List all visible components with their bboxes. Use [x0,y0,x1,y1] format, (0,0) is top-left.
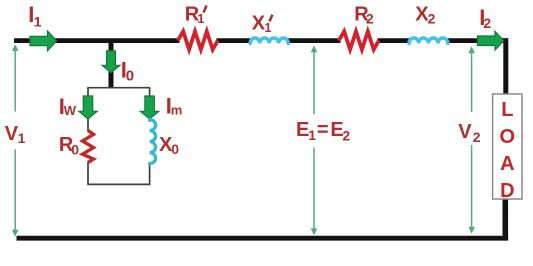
wire center tap [109,40,114,89]
label Iw [59,94,77,119]
svg-text:1: 1 [308,127,316,143]
voltage line V2 bottom arrowhead [468,227,475,234]
label X2 [415,3,435,26]
label R0 [59,134,79,158]
svg-text:V: V [458,121,472,143]
wire shunt right branch lower [149,164,151,185]
svg-text:2: 2 [473,129,481,145]
wire shunt right branch upper [149,88,151,122]
emf line E upper [313,51,315,114]
svg-text:L: L [501,99,513,121]
wire shunt left branch upper [87,88,89,132]
wire right vertical upper [503,38,508,95]
resistor R2 [339,31,379,49]
inductor X2 [409,38,448,43]
current arrow I1 [30,31,57,51]
svg-text:0: 0 [171,141,179,157]
label V2 [458,121,481,145]
emf line E bottom arrowhead [311,228,318,235]
wire shunt left branch lower [87,162,89,184]
voltage line V1 upper [14,50,16,112]
current arrow I2 [478,31,504,50]
emf line E lower [313,148,315,230]
label Im [166,93,183,118]
voltage line V2 top arrowhead [468,46,475,53]
svg-text:1: 1 [265,21,272,35]
label X1' prime [270,15,273,22]
svg-text:2: 2 [342,128,350,144]
load box [493,94,522,199]
label X1' [252,12,272,35]
label R2 [354,3,374,26]
svg-text:W: W [64,103,77,118]
wire top rail segment 5 [448,38,508,43]
svg-text:1: 1 [18,130,26,146]
wire shunt bottom bar [87,183,150,185]
svg-text:=: = [317,119,329,141]
emf line E top arrowhead [311,45,318,52]
label I2 [479,5,491,31]
label X0 [159,134,179,157]
svg-text:O: O [500,126,516,148]
current arrow Im [140,96,158,119]
wire top rail segment 2 [217,38,252,43]
label I0 [121,57,134,84]
svg-text:1: 1 [34,13,42,29]
label I1 [28,2,42,30]
resistor R1' [178,31,218,49]
svg-text:0: 0 [71,142,79,158]
wire top rail segment 3 [287,38,341,43]
current arrow Iw [79,96,97,119]
svg-text:A: A [500,153,514,175]
label E1 = E2 [296,119,350,143]
label R1' [185,3,205,25]
svg-text:m: m [171,103,183,118]
wire bottom rail [17,236,509,241]
voltage line V1 bottom arrowhead [12,230,19,237]
inductor X1' [250,38,288,43]
svg-text:2: 2 [366,10,374,26]
svg-text:0: 0 [126,68,134,85]
resistor R0 [83,130,94,162]
svg-text:D: D [500,180,514,202]
voltage line V1 lower [14,150,16,232]
wire top rail segment 1 [14,38,180,43]
current arrow I0 [102,51,120,73]
label V1 [5,123,26,146]
wire shunt top bar [87,87,150,89]
voltage line V1 top arrowhead [12,44,19,51]
wire right vertical lower [502,199,508,241]
svg-text:2: 2 [483,15,491,31]
wire top rail segment 4 [378,38,410,43]
label R1' prime [204,6,207,13]
svg-text:2: 2 [428,10,436,26]
voltage line V2 upper [471,52,473,112]
inductor X0 [150,120,156,164]
voltage line V2 lower [471,145,473,228]
svg-text:1: 1 [197,12,204,26]
